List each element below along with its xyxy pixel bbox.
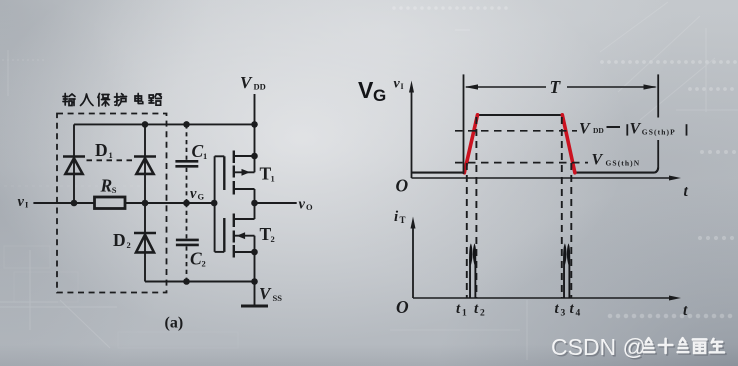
node: VSS rail-stem junction bbox=[251, 278, 258, 285]
wire: C1 dashed leads bbox=[186, 124, 188, 203]
capacitor C1 bbox=[175, 161, 198, 166]
svg-text:2: 2 bbox=[127, 240, 131, 250]
node: vG-C2 junction bbox=[183, 200, 190, 207]
svg-text:3: 3 bbox=[561, 309, 566, 319]
svg-text:I: I bbox=[401, 82, 404, 91]
wire: input line from RS to gate node bbox=[125, 202, 215, 204]
svg-text:t: t bbox=[570, 301, 575, 317]
wire: T1 drain to T2 drain through output node bbox=[254, 189, 256, 219]
waveform: vG baseline and plateau (black) bbox=[412, 115, 659, 173]
wire: input line from vI to RS bbox=[33, 202, 94, 204]
node: C2-VSS rail junction bbox=[183, 278, 190, 285]
svg-text:1: 1 bbox=[271, 174, 275, 184]
svg-text:v: v bbox=[190, 186, 197, 202]
watermark: 叁十叁画生 (drawn strokes) bbox=[645, 340, 725, 355]
node: input-mid branch junction bbox=[142, 200, 149, 207]
wire: left protection branch (rail to input line) bbox=[73, 124, 75, 203]
svg-text:v: v bbox=[299, 197, 306, 213]
svg-text:G: G bbox=[198, 192, 205, 202]
svg-text:V: V bbox=[592, 152, 604, 169]
svg-text:4: 4 bbox=[576, 309, 581, 319]
svg-text:i: i bbox=[394, 209, 399, 225]
wire: dashed link between D1 units bbox=[87, 159, 133, 161]
svg-text:T: T bbox=[400, 215, 406, 225]
svg-text:S: S bbox=[112, 185, 117, 195]
node: T2 source-body junction bbox=[251, 249, 258, 256]
wire: top VDD rail bbox=[74, 123, 255, 125]
svg-text:CSDN @: CSDN @ bbox=[551, 334, 646, 360]
wire: output line to vO bbox=[255, 202, 297, 204]
svg-text:DD: DD bbox=[593, 126, 604, 135]
wire: bottom VSS rail bbox=[145, 281, 255, 283]
svg-text:GS(th)P: GS(th)P bbox=[642, 128, 676, 137]
diode D2 bbox=[134, 233, 156, 252]
wire: VSS terminal stem bbox=[254, 282, 256, 306]
resistor RS bbox=[95, 197, 126, 209]
wire: common gate line with stubs bbox=[215, 156, 225, 252]
svg-text:t: t bbox=[684, 183, 689, 200]
node: gate junction bbox=[211, 200, 218, 207]
capacitor C2 bbox=[176, 240, 199, 245]
svg-text:2: 2 bbox=[202, 259, 206, 269]
svg-text:T: T bbox=[550, 77, 562, 97]
wire: VDD stem bbox=[254, 94, 256, 124]
svg-text:SS: SS bbox=[273, 293, 283, 303]
axis: bottom graph y-axis bbox=[412, 222, 414, 298]
svg-text:1: 1 bbox=[462, 309, 467, 319]
node: output node bbox=[251, 200, 258, 207]
transistor T2 body arrow (points left, NMOS) bbox=[237, 232, 246, 239]
svg-text:O: O bbox=[306, 202, 313, 212]
marker: period T left tick bbox=[463, 74, 465, 174]
transistor T2 (NMOS) bbox=[224, 214, 234, 258]
transistor T1 body arrow (points right, PMOS) bbox=[242, 169, 251, 176]
svg-text:2: 2 bbox=[480, 309, 485, 319]
wire: T2 body/source down to VSS rail bbox=[254, 236, 256, 282]
svg-text:t: t bbox=[474, 301, 479, 317]
level line: VDD-|VGS(th)P| dashed bbox=[455, 130, 577, 132]
marker: period T right tick / next edge (broken around label) bbox=[657, 74, 659, 117]
diode D1 right unit bbox=[134, 157, 156, 174]
svg-text:2: 2 bbox=[271, 234, 275, 244]
wire: C2 dashed leads bbox=[186, 203, 188, 282]
svg-text:C: C bbox=[190, 249, 202, 269]
label: 输入保护电路 (drawn strokes) bbox=[63, 94, 161, 107]
svg-text:D: D bbox=[95, 140, 108, 160]
waveform: red rising edge bbox=[464, 115, 477, 173]
axis: top graph x-axis bbox=[412, 177, 675, 179]
svg-text:t: t bbox=[456, 301, 461, 317]
node: rail-D1 junction bbox=[142, 121, 149, 128]
svg-text:(a): (a) bbox=[165, 315, 184, 332]
svg-text:V: V bbox=[240, 73, 253, 92]
svg-text:t: t bbox=[683, 302, 688, 319]
node: rail-C1 junction bbox=[183, 121, 190, 128]
svg-text:R: R bbox=[100, 175, 113, 195]
svg-text:D: D bbox=[113, 230, 126, 250]
svg-text:1: 1 bbox=[109, 150, 113, 160]
waveform: iT spike pair 1 bbox=[469, 243, 476, 298]
dashed box: input protection circuit boundary bbox=[57, 114, 167, 293]
transistor T1 (PMOS) bbox=[224, 151, 234, 195]
svg-text:V: V bbox=[358, 77, 374, 103]
axis: top graph y-axis bbox=[411, 86, 413, 178]
waveform: red falling edge bbox=[562, 115, 575, 173]
svg-text:V: V bbox=[259, 284, 272, 303]
svg-text:V: V bbox=[579, 121, 591, 138]
marker: dashed vertical t2 bbox=[475, 117, 477, 298]
svg-text:O: O bbox=[396, 297, 409, 317]
node: input-left branch junction bbox=[71, 200, 78, 207]
label: VGS(th)N bbox=[592, 152, 641, 169]
marker: dashed vertical t3 bbox=[561, 117, 563, 298]
wire: right column VDD to T1 source/body bbox=[254, 124, 256, 172]
svg-text:V: V bbox=[630, 121, 642, 138]
svg-text:v: v bbox=[394, 77, 401, 92]
svg-text:GS(th)N: GS(th)N bbox=[606, 159, 641, 168]
marker: T dimension arrows bbox=[465, 84, 658, 89]
marker: dashed vertical t4 bbox=[570, 163, 572, 298]
diode D1 left unit bbox=[63, 157, 85, 174]
svg-text:C: C bbox=[192, 141, 204, 161]
svg-text:t: t bbox=[555, 301, 560, 317]
svg-text:O: O bbox=[396, 176, 409, 196]
waveform: iT spike pair 2 bbox=[563, 243, 570, 298]
node: rail-VDD junction bbox=[251, 121, 258, 128]
svg-text:G: G bbox=[373, 86, 386, 105]
svg-text:I: I bbox=[25, 200, 29, 210]
svg-text:v: v bbox=[18, 194, 25, 210]
node: T1 source-body junction bbox=[251, 153, 258, 160]
wire: middle protection branch (rail to bottom rail) bbox=[144, 124, 146, 281]
label: VDD - |VGS(th)P| bbox=[579, 121, 687, 138]
svg-text:1: 1 bbox=[203, 151, 207, 161]
ground: VSS terminal bar bbox=[241, 305, 268, 308]
level line: VGS(th)N dashed bbox=[455, 162, 588, 164]
svg-text:DD: DD bbox=[254, 82, 266, 92]
marker: dashed vertical t1 bbox=[466, 163, 468, 298]
axis: bottom graph x-axis bbox=[413, 297, 674, 299]
